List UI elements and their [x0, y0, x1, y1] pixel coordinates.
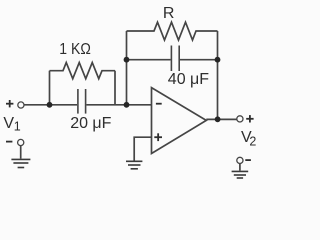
- svg-text:R: R: [163, 5, 175, 22]
- svg-text:V: V: [3, 115, 14, 132]
- svg-text:20 μF: 20 μF: [70, 115, 111, 132]
- svg-text:1 KΩ: 1 KΩ: [59, 41, 91, 58]
- svg-text:1: 1: [14, 119, 21, 133]
- svg-text:40 μF: 40 μF: [168, 71, 209, 88]
- svg-text:2: 2: [249, 134, 256, 148]
